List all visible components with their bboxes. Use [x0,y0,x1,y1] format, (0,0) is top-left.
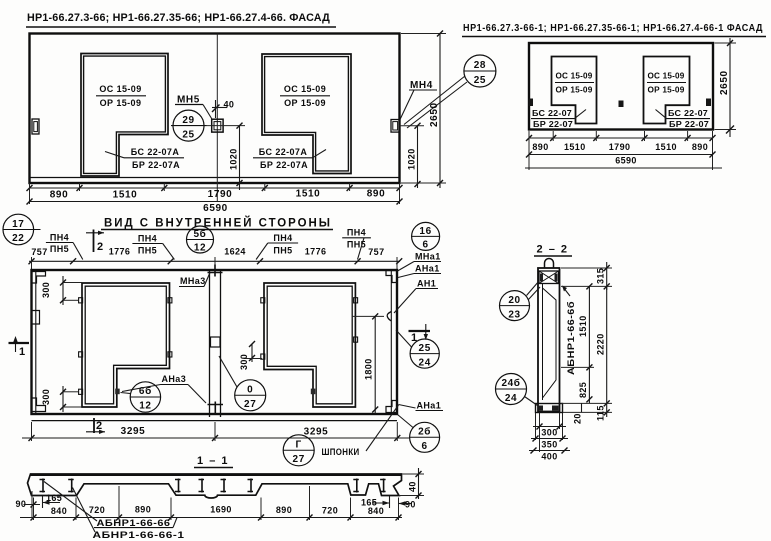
title: section 2-2 heading [534,244,572,257]
title: section 1-1 heading [194,455,233,468]
svg-text:5б: 5б [194,228,207,240]
dim 1020 (right side vertical) [400,123,425,188]
dim row 890-1510-1790-1510-890 (small facade) [526,131,716,170]
svg-text:ПН4: ПН4 [50,233,69,243]
svg-text:ПН4: ПН4 [273,233,292,243]
callout circle 25/24 with leader [396,330,439,368]
label АБНР1-66-66-1 with leader [73,488,185,540]
callout circle 29/25 [171,110,207,141]
svg-text:ПН4: ПН4 [347,228,366,238]
svg-text:24: 24 [419,357,431,368]
section 1-1 dim row [20,486,402,521]
divider clip bottom [208,402,224,415]
label АНа3 with leaders [122,374,206,403]
svg-text:165: 165 [361,498,377,508]
svg-text:АБНР1-66-66-1: АБНР1-66-66-1 [93,530,185,540]
svg-text:1800: 1800 [364,358,374,380]
dim 40 (plate width) [212,100,234,119]
svg-text:20: 20 [508,295,520,306]
callout circle 24б/24 with leader [496,374,538,406]
svg-text:3295: 3295 [304,427,329,438]
label ПН4/ПН5 stack 3 with leader [256,233,298,260]
svg-text:1510: 1510 [655,142,677,152]
svg-text:БР 22-07: БР 22-07 [533,120,573,129]
bottom dims 300/350/400 [529,413,570,462]
svg-text:300: 300 [41,389,51,405]
section 1-1 top slab line (thick) [31,474,402,476]
svg-text:1510: 1510 [578,315,588,337]
svg-text:12: 12 [194,243,206,254]
svg-text:25: 25 [182,130,194,141]
big facade center axis [216,34,218,203]
central divider band [210,270,221,417]
callout circle 28/25 with leader [404,55,496,128]
label ПН4/ПН5 stack 1 with leader [46,233,83,260]
svg-text:28: 28 [474,60,486,71]
callout circle 16/6 [412,222,440,250]
svg-text:НР1-66.27.3-66; НР1-66.27.35-6: НР1-66.27.3-66; НР1-66.27.35-66; НР1-66.… [27,12,330,24]
svg-text:Г: Г [296,439,302,450]
svg-text:890: 890 [276,505,292,515]
label МНа1 with leader [398,252,442,272]
svg-text:165: 165 [46,493,62,503]
svg-text:890: 890 [50,190,69,201]
section 2-2 bottom foot [536,404,563,413]
title: big facade heading [26,12,336,27]
sub-dim 165 (right) [361,496,390,508]
svg-text:25: 25 [419,343,431,354]
svg-text:24: 24 [505,393,517,404]
svg-text:АБНР1-66-66: АБНР1-66-66 [97,518,171,528]
small facade window opening W4 (right) [644,57,690,124]
svg-text:890: 890 [692,142,708,152]
label ПН4/ПН5 stack 2 with leader [132,234,174,260]
svg-text:АН1: АН1 [417,279,436,289]
svg-text:23: 23 [508,309,520,320]
svg-text:2650: 2650 [429,102,440,127]
svg-text:400: 400 [541,452,557,462]
svg-text:2 – 2: 2 – 2 [537,244,569,256]
svg-text:ПН5: ПН5 [50,244,69,254]
svg-text:1776: 1776 [109,247,131,257]
embedded plate left edge [32,119,39,134]
svg-text:ОР 15-09: ОР 15-09 [556,86,593,95]
embedded plate МН4 right edge [391,120,399,133]
extension verticals above inner view [32,257,398,270]
dim 90 (right end) [399,500,416,510]
svg-text:ОС 15-09: ОС 15-09 [284,84,326,94]
embedded plate МН5 (center) [207,119,246,132]
svg-text:ОС 15-09: ОС 15-09 [99,84,141,94]
dim 1510 and 825 (inner vertical chain) [561,283,594,403]
svg-text:2б: 2б [418,425,431,437]
label АНа1 (top) with leader [398,264,441,278]
svg-text:1 – 1: 1 – 1 [197,455,229,467]
svg-text:БР 22-07: БР 22-07 [669,120,709,129]
dim 315 [561,262,612,290]
plate mark center (small facade) [619,101,624,108]
big facade bottom inner edge line [30,177,400,179]
svg-text:ОС 15-09: ОС 15-09 [648,72,685,81]
svg-text:ОР 15-09: ОР 15-09 [100,98,142,108]
section marker 2 (bottom) [86,418,105,434]
svg-text:МНа1: МНа1 [415,252,441,262]
svg-text:1510: 1510 [113,190,138,201]
top dim row 757-1776-1624-1776-757 [29,247,403,265]
svg-text:840: 840 [51,506,67,516]
callout circle Г/27 шпонки with leader [283,405,398,466]
svg-text:300: 300 [41,282,51,298]
svg-text:720: 720 [89,505,105,515]
svg-text:1776: 1776 [305,247,327,257]
lifting loop [545,259,554,269]
dim 20 (bottom) [573,403,583,424]
svg-text:1790: 1790 [208,189,233,200]
right edge anchor АН1 bump [387,312,391,322]
dim 1800 (vertical) [352,313,384,413]
svg-text:840: 840 [368,506,384,516]
svg-text:6: 6 [422,441,428,452]
svg-text:2: 2 [97,241,103,253]
svg-text:НР1-66.27.3-66-1; НР1-66.27.35: НР1-66.27.3-66-1; НР1-66.27.35-66-1; НР1… [463,23,763,34]
section 2-2 top anchor block [539,271,559,284]
svg-text:БР 22-07А: БР 22-07А [260,160,308,170]
svg-text:ОС 15-09: ОС 15-09 [556,72,593,81]
svg-text:890: 890 [367,189,386,200]
left edge bracket top [32,272,46,284]
label ПН4/ПН5 stack 4 with leader [342,228,371,260]
svg-text:29: 29 [182,115,194,126]
left edge anchor middle [32,311,40,325]
svg-text:2: 2 [96,420,102,432]
dim row 890-1510-1790-1510-890 (big facade) [27,183,403,204]
big facade panel outline [30,34,400,184]
svg-text:АНа1: АНа1 [417,401,442,411]
svg-text:2650: 2650 [719,70,730,95]
svg-text:ПН4: ПН4 [138,234,157,244]
svg-text:БС 22-07: БС 22-07 [532,109,572,118]
dim 1020 (center, vertical) [229,123,243,190]
svg-text:6: 6 [423,240,429,251]
svg-text:825: 825 [578,382,588,398]
svg-text:17: 17 [12,219,24,230]
label МН4 with leader [400,80,437,120]
svg-text:16: 16 [419,226,431,237]
window opening W2 (right, L-shaped) [262,54,351,174]
dim 6590 (big facade overall) [27,199,403,215]
section marker 2 (top) [86,230,104,254]
label МН5 [175,95,213,121]
svg-text:ШПОНКИ: ШПОНКИ [322,447,360,457]
dim 300 (O2 left) [239,341,262,370]
svg-text:6590: 6590 [203,203,228,214]
right edge bracket bottom [386,401,397,413]
svg-text:ОР 15-09: ОР 15-09 [284,98,326,108]
label АБНР1-66-66 with leaders [44,482,177,528]
label ОС/ОР 15-09 (right opening) [280,84,330,108]
sub-dim 165 (left) [43,493,63,508]
svg-text:ПН5: ПН5 [273,246,292,256]
clips on opening O2 [261,298,358,395]
clips on opening O1 [79,298,172,395]
section marker 1 (left) [9,336,30,358]
svg-text:МН4: МН4 [410,80,433,91]
label ОС/ОР 15-09 (small right opening) [647,72,686,95]
svg-text:3295: 3295 [121,426,146,437]
svg-text:БС 22-07: БС 22-07 [668,109,708,118]
dim 40 (section 1-1 edge height) [400,468,424,499]
svg-text:720: 720 [322,506,338,516]
opening O2 (middle view right, L-shaped, double frame) [264,283,355,407]
svg-text:350: 350 [541,440,557,450]
svg-text:1510: 1510 [564,142,586,152]
svg-text:90: 90 [405,500,416,510]
svg-text:1020: 1020 [407,148,417,170]
svg-text:1790: 1790 [609,142,631,152]
svg-text:24б: 24б [501,377,520,389]
label БС/БР 22-07А (left) with leader [105,147,184,170]
svg-text:ОР 15-09: ОР 15-09 [648,86,685,95]
section 2-2 inner recess outline [543,288,557,398]
dim 90 (left end) [16,491,41,520]
window opening W1 (left, L-shaped) [81,54,168,177]
callout circle 5б/12 [187,226,214,254]
svg-text:22: 22 [12,233,24,244]
svg-text:27: 27 [293,454,305,465]
svg-text:МН5: МН5 [177,95,200,106]
svg-text:БР 22-07А: БР 22-07А [132,160,180,170]
bottom dim row 3295+3295 [22,422,410,441]
dim 300 (O1 bottom left) [41,386,82,412]
label БС/БР 22-07А (right) with leader [253,147,326,170]
title: small facade heading [462,23,766,37]
dim 6590 (small facade overall) [525,152,722,169]
section 2-2 body outline [538,268,560,412]
svg-text:40: 40 [408,481,418,492]
opening O1 (middle view left, L-shaped, double frame) [82,283,170,407]
plate mark left (small facade) [529,99,534,107]
label АНа1 (bottom) with leader [399,401,444,411]
svg-text:1510: 1510 [296,189,321,200]
svg-text:6590: 6590 [615,156,637,166]
svg-text:1624: 1624 [224,247,246,257]
label АБНР1-66-6б (rotated) with arrow [562,286,576,376]
svg-text:ПН5: ПН5 [138,246,157,256]
svg-text:27: 27 [244,399,256,410]
small facade panel outline [529,43,713,130]
svg-text:2220: 2220 [596,333,606,355]
svg-text:115: 115 [596,405,606,421]
label БС/БР 22-07 (small facade left) with leader [531,109,586,129]
rebar marks in section 1-1 [40,479,386,493]
svg-text:БС 22-07А: БС 22-07А [131,147,180,157]
svg-text:МНа3: МНа3 [180,276,206,286]
svg-text:ВИД С ВНУТРЕННЕЙ СТОРОНЫ: ВИД С ВНУТРЕННЕЙ СТОРОНЫ [104,217,332,230]
svg-text:АНа3: АНа3 [162,374,187,384]
svg-text:40: 40 [224,100,235,110]
divider clip top [208,265,223,277]
svg-text:0: 0 [247,384,253,395]
title: inner side view heading [101,217,333,230]
svg-text:АНа1: АНа1 [415,264,440,274]
callout circle 17/22 [3,214,41,245]
svg-text:300: 300 [541,428,557,438]
divider anchor middle [211,337,221,347]
inner view panel outline [32,270,398,421]
callout circle 6б/12 with leader [121,382,161,412]
label ОС/ОР 15-09 (small left opening) [555,72,594,95]
callout circle 2б/6 with leader [398,415,440,453]
right edge bracket top [386,271,397,283]
label ОС/ОР 15-09 (left opening) [96,84,146,108]
svg-text:АБНР1-66-6б: АБНР1-66-6б [566,301,576,375]
callout circle 0/27 with leader [219,356,266,411]
dim 2650 (small facade height) [715,38,737,137]
callout circle 20/23 with leader [500,281,541,321]
small facade window opening W3 (left) [552,57,597,124]
svg-text:1020: 1020 [229,148,239,170]
svg-text:12: 12 [139,400,151,411]
svg-text:315: 315 [596,268,606,284]
left edge bracket bottom [32,398,46,412]
svg-text:300: 300 [239,354,249,370]
section 1-1 profile outline [28,474,402,498]
label МНа3 with leader [179,273,210,287]
svg-text:890: 890 [135,505,151,515]
dim 300 (O1 top left) [41,276,82,305]
svg-text:БС 22-07А: БС 22-07А [259,147,308,157]
svg-text:1690: 1690 [210,505,232,515]
plate mark right (small facade) [706,99,711,107]
svg-text:757: 757 [31,247,47,257]
svg-text:25: 25 [474,75,486,86]
svg-text:6б: 6б [139,385,152,397]
section marker 1 (right) [409,324,431,344]
label АН1 with leader [394,279,438,314]
svg-text:1: 1 [19,346,25,358]
label БС/БР 22-07 (small facade right) with leader [656,109,711,129]
svg-text:757: 757 [368,247,384,257]
dim 2220 and 115 (outer vertical chain) [561,286,612,421]
svg-text:20: 20 [573,413,583,424]
svg-text:890: 890 [532,142,548,152]
dim 2650 (big facade height) [401,31,446,189]
